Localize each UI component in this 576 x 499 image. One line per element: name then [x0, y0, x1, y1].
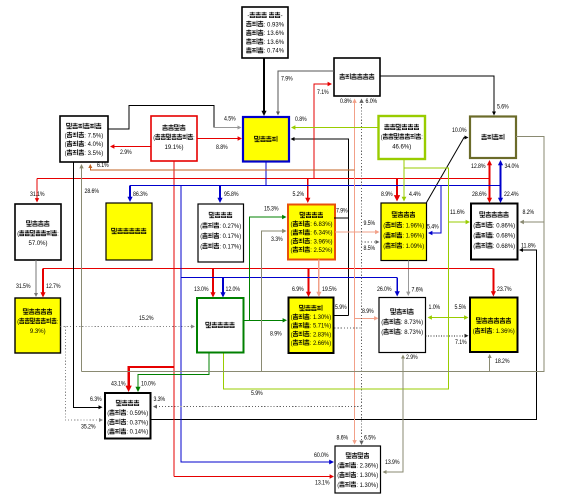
wire 대홍기획→롯데손해보험 18.2% — [488, 354, 492, 372]
svg-text:8.8%: 8.8% — [216, 145, 228, 151]
svg-text:: 1.96%): : 1.96%) — [402, 223, 424, 229]
svg-text:3.3%: 3.3% — [154, 397, 166, 403]
wire red trunk1 y=178.5 — [37, 178, 490, 180]
wire 롯데쇼핑 bottom stub — [265, 162, 267, 186]
wire →롯데역사 1.0% — [428, 315, 449, 319]
svg-text:7.1%: 7.1% — [317, 90, 329, 96]
svg-text:12.8%: 12.8% — [471, 164, 486, 170]
svg-text:7.1%: 7.1% — [455, 340, 467, 346]
svg-text:8.9%: 8.9% — [270, 332, 282, 338]
svg-text:5.9%: 5.9% — [251, 391, 263, 397]
svg-text:: 0.74%: : 0.74% — [264, 49, 285, 55]
svg-text:: 6.34%): : 6.34%) — [310, 231, 332, 237]
svg-text:5.2%: 5.2% — [293, 192, 305, 198]
svg-text:15.2%: 15.2% — [139, 316, 154, 322]
wire 롯데쇼핑→롯데역사 26.0% — [395, 278, 400, 297]
svg-text:: 1.30%): : 1.30%) — [356, 483, 378, 489]
svg-text:28.6%: 28.6% — [472, 192, 487, 198]
svg-text:43.1%: 43.1% — [111, 382, 126, 388]
svg-text:86.3%: 86.3% — [133, 192, 148, 198]
svg-text:13.9%: 13.9% — [385, 460, 400, 466]
wire 롯데쇼핑→롯데알미늄 12.0% — [220, 278, 225, 298]
svg-text:13.0%: 13.0% — [194, 287, 209, 293]
wire 롯데정보통신→롯데건설 6.3% — [74, 162, 103, 409]
wire 롯데물산→롯데케미칼 31.5% — [34, 260, 38, 297]
svg-text:4.5%: 4.5% — [224, 117, 236, 123]
svg-text:35.2%: 35.2% — [81, 425, 96, 431]
wire 롯데칠성→롯데푸드 8.5% — [362, 240, 380, 244]
wire 호텔롯데 trunk vertical — [173, 161, 175, 477]
box 롯데하이마트 — [106, 203, 152, 260]
wire →롯데손해보험 5.5% — [449, 315, 469, 319]
svg-text:9.5%: 9.5% — [364, 221, 376, 227]
wire 칠성 dashed vertical x=361.5 — [359, 99, 363, 446]
wire vertical x348.6 + arrow into 쇼핑 — [291, 137, 349, 315]
svg-text:(: ( — [383, 244, 385, 250]
svg-text:(: ( — [200, 234, 202, 240]
svg-text:: 0.68%): : 0.68%) — [493, 234, 515, 240]
wire 호텔롯데→대홍기획 12.8% — [487, 160, 492, 179]
svg-text:3.3%: 3.3% — [271, 237, 283, 243]
svg-text:8.9%: 8.9% — [381, 192, 393, 198]
svg-text:5.4%: 5.4% — [427, 225, 439, 231]
svg-text:(: ( — [291, 315, 293, 321]
wire 롯데역사→롯데손해보험 7.1% (dotted) — [426, 334, 469, 338]
svg-text:0.8%: 0.8% — [340, 99, 352, 105]
svg-text:0.8%: 0.8% — [295, 117, 307, 123]
svg-text:: 1.30%): : 1.30%) — [310, 315, 332, 321]
wire 롯데알미늄→롯데제과 15.3% — [250, 215, 287, 320]
wire 롯데쇼핑→롯데캐피탈 22.4% — [498, 185, 503, 203]
svg-text:12.0%: 12.0% — [226, 287, 241, 293]
wire 롯데정보통신→롯데쇼핑 4.5% (black part) — [108, 105, 214, 129]
svg-text:11.8%: 11.8% — [521, 244, 536, 250]
svg-text:31.5%: 31.5% — [16, 284, 31, 290]
svg-text:60.0%: 60.0% — [314, 453, 329, 459]
wire 대홍기획→롯데제과 3.3% — [262, 229, 287, 372]
box 롯데케미칼 — [15, 298, 61, 353]
svg-text:23.7%: 23.7% — [497, 287, 512, 293]
box 롯데칠성 — [289, 298, 334, 354]
svg-text:34.0%: 34.0% — [505, 164, 520, 170]
svg-text:(: ( — [291, 332, 293, 338]
svg-text:(: ( — [473, 234, 475, 240]
svg-text:: 1.30%): : 1.30%) — [356, 473, 378, 479]
svg-text:31.1%: 31.1% — [30, 192, 45, 198]
wire 롯데제과→롯데정보통신 6.1% — [88, 164, 354, 170]
wire 대주주→롯데쇼핑 (thick) — [261, 58, 266, 116]
wire 롯데쇼핑→롯데푸드 5.4% — [428, 185, 441, 235]
svg-text:(: ( — [65, 151, 67, 157]
svg-text:(: ( — [107, 411, 109, 417]
svg-text:8.2%: 8.2% — [523, 210, 535, 216]
svg-text:: 0.14%): : 0.14%) — [126, 430, 148, 436]
svg-text:(: ( — [17, 231, 19, 237]
svg-text:: 3.96%): : 3.96%) — [310, 239, 332, 245]
svg-text:: 0.93%: : 0.93% — [264, 22, 285, 28]
wire 롯데쇼핑→롯데하이마트 86.3% — [127, 185, 132, 202]
box 롯데건설 — [105, 393, 151, 439]
wire 롯데케미칼→롯데알미늄 15.2% — [61, 325, 196, 329]
wire 호텔롯데→롯데칠성 6.9% — [306, 269, 311, 298]
svg-text:(: ( — [291, 222, 293, 228]
svg-text:7.9%: 7.9% — [336, 209, 348, 215]
svg-text:5.6%: 5.6% — [497, 105, 509, 111]
svg-text:(: ( — [381, 330, 383, 336]
svg-text:4.4%: 4.4% — [409, 192, 421, 198]
svg-text:: 2.36%): : 2.36%) — [356, 464, 378, 470]
svg-text:: 0.59%): : 0.59%) — [126, 411, 148, 417]
box majority-shareholders (대주주 일가) — [242, 7, 288, 58]
svg-text:15.3%: 15.3% — [264, 207, 279, 213]
svg-text:26.0%: 26.0% — [377, 287, 392, 293]
svg-text:: 13.6%: : 13.6% — [264, 31, 285, 37]
wire 한국후지필름→대홍기획 5.6% — [380, 76, 496, 116]
svg-text:: 0.17%): : 0.17%) — [219, 244, 241, 250]
svg-text:(: ( — [291, 231, 293, 237]
wire 롯데칠성→롯데건설 3.3% — [153, 405, 362, 409]
svg-text:: 1.96%): : 1.96%) — [402, 234, 424, 240]
svg-text:(: ( — [381, 135, 383, 141]
svg-text:(: ( — [153, 135, 155, 141]
svg-text:46.6%): 46.6%) — [392, 144, 411, 150]
wire 호텔롯데→롯데정보통신 2.9% — [110, 144, 151, 148]
svg-text:(: ( — [337, 473, 339, 479]
wire 롯데푸드→대홍기획 10.0% (diagonal) — [427, 136, 469, 203]
svg-text:(: ( — [65, 142, 67, 148]
svg-text:(: ( — [383, 223, 385, 229]
svg-text:: 1.36%): : 1.36%) — [492, 329, 514, 335]
box 롯데역사 — [379, 298, 426, 353]
wire blue trunk y=185.3 — [130, 184, 501, 186]
wire 롯데쇼핑→대홍기획 34.0% — [498, 160, 503, 185]
svg-text:22.4%: 22.4% — [504, 192, 519, 198]
box 부산롯데호텔 — [379, 116, 426, 159]
wire 호텔롯데→롯데손해보험 23.7% — [491, 269, 496, 297]
svg-text:: 4.0%): : 4.0%) — [84, 142, 103, 148]
wire 호텔롯데→롯데푸드 8.9% — [394, 179, 400, 202]
wire 롯데건설→롯데캐피탈 11.8% — [151, 248, 537, 420]
svg-text:(: ( — [473, 244, 475, 250]
wire 롯데정보통신→롯데쇼핑 4.5% (gray arrow) — [214, 126, 242, 130]
svg-text:(: ( — [381, 320, 383, 326]
svg-text:: 2.66%): : 2.66%) — [310, 341, 332, 347]
svg-text:: 2.52%): : 2.52%) — [310, 248, 332, 254]
box 롯데손해보험 — [470, 298, 518, 353]
svg-text:12.7%: 12.7% — [46, 284, 61, 290]
box 롯데알미늄 — [197, 298, 244, 353]
wire 대홍기획 trunk — [82, 137, 545, 372]
wire 칠성 junction to dashed trunk — [335, 327, 362, 329]
svg-text:8.9%: 8.9% — [362, 309, 374, 315]
svg-text:8.5%: 8.5% — [364, 246, 376, 252]
svg-text:-: - — [281, 14, 283, 20]
svg-text:5.9%: 5.9% — [335, 305, 347, 311]
box 롯데정보통신 — [60, 116, 108, 162]
wire 롯데쇼핑→롯데카드 95.8% — [217, 185, 222, 203]
svg-text:6.3%: 6.3% — [90, 397, 102, 403]
wire 호텔롯데→롯데건설 43.1% — [125, 367, 174, 392]
svg-text:5.5%: 5.5% — [455, 305, 467, 311]
svg-text:(: ( — [337, 483, 339, 489]
wire 제과 vertical x=354.6 — [352, 99, 356, 445]
wire 호텔롯데→롯데제과 5.2% — [305, 179, 310, 204]
svg-text:6.1%: 6.1% — [97, 163, 109, 169]
svg-text:: 0.68%): : 0.68%) — [493, 244, 515, 250]
svg-text:(: ( — [200, 224, 202, 230]
wire 대홍기획→롯데닷컴 13.9% — [383, 372, 404, 475]
wire 롯데제과·롯데칠성→롯데쇼핑 7.9%/5.9% — [334, 217, 349, 219]
wire 대홍기획→롯데캐피탈 8.2% — [520, 220, 545, 224]
box 롯데푸드 — [381, 203, 427, 261]
svg-text:(: ( — [107, 430, 109, 436]
svg-text:19.5%: 19.5% — [322, 287, 337, 293]
svg-text:7.6%: 7.6% — [412, 288, 424, 294]
svg-text:9.3%): 9.3%) — [30, 329, 46, 335]
svg-text:57.0%): 57.0%) — [29, 241, 48, 247]
wire 호텔롯데→롯데알미늄 13.0% — [210, 269, 215, 298]
wire 호텔롯데→롯데케미칼 12.7% — [40, 269, 45, 298]
svg-text:: 3.5%): : 3.5%) — [84, 151, 103, 157]
svg-text:(: ( — [291, 324, 293, 330]
svg-text:(: ( — [107, 420, 109, 426]
wire 호텔롯데→롯데닷컴 13.1% — [174, 474, 334, 478]
wire blue trunk2 y=277.5 — [181, 277, 397, 279]
svg-text:: 8.73%): : 8.73%) — [401, 320, 423, 326]
wire 부산롯데호텔→롯데캐피탈 11.6% — [449, 220, 471, 224]
svg-text:18.2%: 18.2% — [495, 359, 510, 365]
svg-text:6.9%: 6.9% — [292, 287, 304, 293]
wire 부산롯데호텔 trunk — [224, 159, 449, 389]
svg-text:7.9%: 7.9% — [281, 77, 293, 83]
svg-text:2.9%: 2.9% — [120, 150, 132, 156]
wire 한국후지필름→롯데쇼핑 7.9% — [276, 71, 334, 116]
svg-text:2.9%: 2.9% — [406, 355, 418, 361]
svg-text:(: ( — [65, 133, 67, 139]
svg-text:: 0.17%): : 0.17%) — [219, 234, 241, 240]
box 롯데제과 — [288, 205, 335, 260]
svg-text:1.0%: 1.0% — [429, 305, 441, 311]
wire 칠성 5.9% junction — [335, 314, 349, 316]
svg-text:(: ( — [337, 464, 339, 470]
svg-text:: 0.37%): : 0.37%) — [126, 420, 148, 426]
svg-text:13.1%: 13.1% — [315, 481, 330, 487]
box 롯데쇼핑 — [243, 117, 289, 162]
svg-text:(: ( — [291, 248, 293, 254]
wire 호텔롯데→한국후지필름 7.1% — [314, 82, 332, 179]
svg-text:: 5.71%): : 5.71%) — [310, 324, 332, 330]
wire 롯데알미늄→롯데칠성 8.9% — [244, 318, 288, 322]
svg-text:95.8%: 95.8% — [224, 192, 239, 198]
wire 롯데제과→롯데푸드 9.5% — [335, 230, 380, 234]
svg-text:: 0.27%): : 0.27%) — [219, 224, 241, 230]
box 롯데카드 — [198, 204, 244, 262]
box 한국후지필름 — [334, 58, 380, 96]
wire 호텔롯데→롯데물산 31.1% — [35, 179, 39, 203]
svg-text:: 2.83%): : 2.83%) — [310, 332, 332, 338]
svg-text:(: ( — [473, 223, 475, 229]
box 대홍기획 — [470, 117, 516, 159]
box 롯데캐피탈 — [471, 204, 518, 260]
svg-text:19.1%): 19.1%) — [165, 145, 184, 151]
svg-text:-: - — [247, 14, 249, 20]
wire 대홍기획→롯데역사 2.9% — [401, 355, 405, 372]
wire 호텔롯데→롯데캐피탈 28.6% — [487, 179, 492, 204]
svg-text:(: ( — [291, 341, 293, 347]
wire 부산롯데호텔→롯데푸드 4.4% — [402, 168, 407, 202]
wire 롯데제과→롯데칠성 19.5% — [316, 260, 321, 298]
svg-text:: 13.6%: : 13.6% — [264, 40, 285, 46]
wire 부산롯데호텔→롯데쇼핑 0.8% — [291, 125, 379, 129]
wire red trunk2 y=268.5 — [43, 268, 493, 270]
svg-text:(: ( — [291, 239, 293, 245]
svg-text:(: ( — [383, 234, 385, 240]
wire 롯데쇼핑→롯데닷컴 60.0% — [181, 185, 334, 464]
box 호텔롯데 — [151, 116, 197, 161]
wire 호텔롯데→롯데쇼핑 8.8% — [197, 136, 242, 140]
svg-text:6.5%: 6.5% — [364, 436, 376, 442]
svg-text:28.6%: 28.6% — [85, 189, 100, 195]
svg-text:: 6.83%): : 6.83%) — [310, 222, 332, 228]
svg-text:(: ( — [200, 244, 202, 250]
wire 롯데푸드→롯데역사 7.6% — [406, 261, 410, 297]
svg-text:6.0%: 6.0% — [366, 99, 378, 105]
svg-text:: 7.5%): : 7.5%) — [84, 133, 103, 139]
box 롯데닷컴 — [335, 446, 381, 493]
svg-text:(: ( — [17, 319, 19, 325]
svg-text:10.0%: 10.0% — [452, 128, 467, 134]
svg-text:: 0.86%): : 0.86%) — [493, 223, 515, 229]
box 롯데물산 — [15, 204, 61, 260]
svg-text:: 8.73%): : 8.73%) — [401, 330, 423, 336]
wire 롯데제과→롯데역사 8.9% — [355, 316, 379, 320]
wire 대홍기획→롯데정보통신 28.6% — [79, 164, 83, 372]
svg-text:10.0%: 10.0% — [141, 382, 156, 388]
svg-text:(: ( — [473, 329, 475, 335]
svg-text:8.6%: 8.6% — [337, 436, 349, 442]
wire 롯데케미칼→롯데건설 35.2% — [65, 327, 103, 423]
svg-text:11.6%: 11.6% — [450, 210, 465, 216]
wire 롯데알미늄→롯데건설 10.0% — [135, 353, 209, 393]
svg-text:: 1.09%): : 1.09%) — [402, 244, 424, 250]
